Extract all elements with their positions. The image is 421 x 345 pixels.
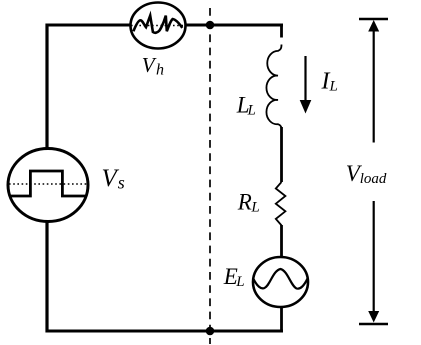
resistor RL xyxy=(276,182,286,225)
Vload dimension line lower segment xyxy=(373,201,375,315)
source Vh dotted axis xyxy=(131,25,185,27)
source Vh noise waveform xyxy=(133,16,182,33)
source Vh circle xyxy=(131,3,186,49)
source Vs circle xyxy=(8,149,88,222)
Vload dimension top bar xyxy=(359,18,388,20)
node top junction xyxy=(206,21,215,30)
node bottom junction xyxy=(206,327,215,336)
inductor LL xyxy=(266,45,281,130)
wire left vertical upper xyxy=(45,24,48,151)
dashed midline xyxy=(209,8,211,344)
wire right branch: top wire down to inductor xyxy=(280,24,283,38)
wire right branch: EL source to bottom wire xyxy=(280,306,283,333)
source Vs pulse waveform xyxy=(11,171,85,196)
wire top-left horizontal (left of Vh) xyxy=(46,24,132,27)
wire left vertical lower xyxy=(45,220,48,333)
wire top horizontal (right of Vh to right branch) xyxy=(185,24,283,27)
Vload dimension bottom bar xyxy=(359,323,388,325)
Vload arrowhead down xyxy=(368,311,379,323)
source EL sine waveform xyxy=(254,269,308,289)
Vload arrowhead up xyxy=(368,20,379,32)
source Vs dotted axis xyxy=(9,183,87,185)
source EL circle xyxy=(253,257,308,307)
arrow IL xyxy=(304,56,306,102)
wire right branch: resistor to EL source xyxy=(280,225,283,258)
wire right branch: inductor to resistor xyxy=(280,127,283,182)
wire bottom horizontal xyxy=(46,330,284,333)
Vload dimension line upper segment xyxy=(373,28,375,143)
